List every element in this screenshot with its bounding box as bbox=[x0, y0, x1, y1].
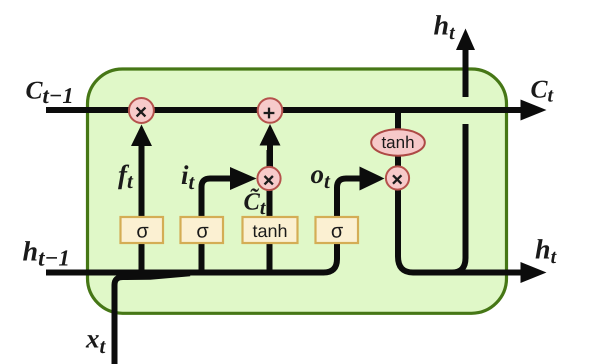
svg-text:ht−1: ht−1 bbox=[23, 237, 70, 271]
svg-text:tanh: tanh bbox=[381, 133, 414, 152]
svg-text:σ: σ bbox=[331, 221, 344, 243]
svg-text:σ: σ bbox=[136, 221, 149, 243]
svg-text:tanh: tanh bbox=[252, 221, 287, 241]
svg-text:ht: ht bbox=[434, 11, 457, 45]
svg-text:xt: xt bbox=[85, 324, 107, 359]
svg-text:σ: σ bbox=[196, 221, 209, 243]
svg-text:ht: ht bbox=[535, 235, 558, 269]
svg-text:Ct: Ct bbox=[531, 75, 555, 107]
svg-text:Ct−1: Ct−1 bbox=[26, 76, 74, 109]
